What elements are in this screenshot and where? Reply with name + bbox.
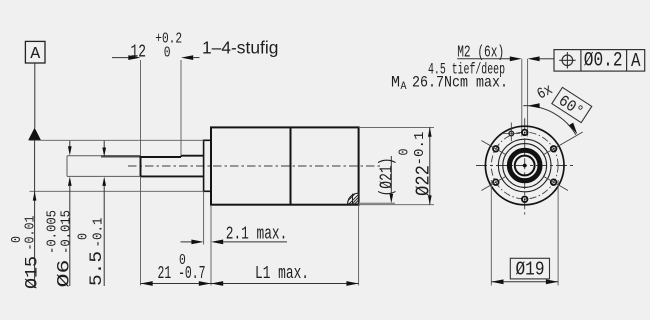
bearing ring [509, 150, 540, 181]
svg-text:12: 12 [131, 43, 147, 63]
svg-text:-0.1: -0.1 [413, 132, 428, 166]
small pin hole [509, 131, 514, 136]
svg-text:0: 0 [164, 45, 171, 62]
dia15 extension lines [30, 139, 204, 141]
svg-text:-0.01: -0.01 [24, 216, 39, 251]
60 deg box [551, 87, 592, 123]
M2 leader line left [457, 58, 510, 60]
datum A box [25, 41, 45, 63]
svg-text:M: M [391, 74, 400, 92]
svg-text:L1 max.: L1 max. [255, 264, 309, 284]
M2 tapped hole projection lines [521, 59, 523, 137]
svg-text:A: A [30, 45, 41, 64]
12 dimension line [112, 57, 129, 59]
svg-text:0: 0 [179, 252, 186, 269]
svg-text:2.1 max.: 2.1 max. [226, 225, 287, 245]
dia15 dimension line [34, 140, 36, 288]
svg-text:A: A [401, 81, 407, 93]
body top/bottom extension lines right [359, 126, 434, 128]
svg-text:Ø19: Ø19 [516, 259, 545, 281]
svg-text:Ø22: Ø22 [413, 165, 435, 196]
body divider [290, 127, 292, 204]
svg-text:-0.005: -0.005 [46, 210, 61, 254]
svg-text:1–4-stufig: 1–4-stufig [202, 38, 278, 58]
svg-text:-0.015: -0.015 [60, 210, 75, 254]
datum triangle [28, 128, 41, 141]
5.5 dimension [103, 141, 105, 148]
hole radial centerlines [481, 132, 582, 191]
dia19 boxed text [510, 258, 549, 279]
svg-text:(Ø21): (Ø21) [378, 158, 398, 197]
front view crosshair vertical [524, 118, 526, 214]
60 degree arc dimension [523, 106, 576, 135]
center dot [523, 164, 527, 168]
bolt circle [491, 132, 558, 199]
pilot circle [498, 139, 551, 192]
inner circle [503, 144, 547, 188]
12 dimension extension lines [140, 60, 142, 156]
flange outer circle [485, 126, 564, 205]
pin hole centerlines [510, 123, 512, 142]
svg-text:0: 0 [10, 236, 25, 243]
svg-text:Ø6: Ø6 [55, 260, 75, 288]
hole center dots [495, 132, 554, 201]
position tolerance symbol [562, 55, 573, 66]
pilot boss [204, 140, 211, 191]
21 and L1 extension lines [210, 205, 212, 286]
svg-text:Ø0.2: Ø0.2 [584, 50, 623, 73]
shaft thin outline tip [67, 156, 141, 177]
svg-text:6x: 6x [534, 81, 556, 104]
svg-text:0: 0 [77, 233, 92, 240]
21 / L1 dimension line [141, 283, 359, 285]
front view crosshair horizontal [476, 165, 574, 167]
feature control frame [554, 50, 645, 72]
2.1 max dimension [203, 191, 205, 244]
mounting holes 6x M2 [493, 130, 556, 203]
shaft circle [515, 156, 535, 176]
svg-text:5.5: 5.5 [87, 251, 107, 286]
M2 leader line right [528, 56, 540, 61]
corner detail quarter disc [348, 193, 359, 204]
datum leader line [34, 63, 36, 128]
svg-text:-0.1: -0.1 [92, 218, 107, 248]
shaft flat overlap segment [101, 155, 141, 157]
svg-text:0: 0 [398, 149, 413, 156]
shaft thick outline [141, 156, 204, 177]
motor body [211, 127, 359, 204]
dia19 extension lines [490, 180, 492, 286]
svg-text:26.7Ncm max.: 26.7Ncm max. [412, 74, 508, 92]
dia6 dimension [69, 141, 71, 147]
dia21 reference dimension [359, 202, 395, 204]
svg-text:Ø15: Ø15 [23, 256, 43, 289]
dia22 dimension [429, 127, 431, 204]
dia19 dimension line [491, 281, 558, 283]
centerline side view [128, 165, 382, 167]
svg-text:A: A [631, 50, 641, 72]
